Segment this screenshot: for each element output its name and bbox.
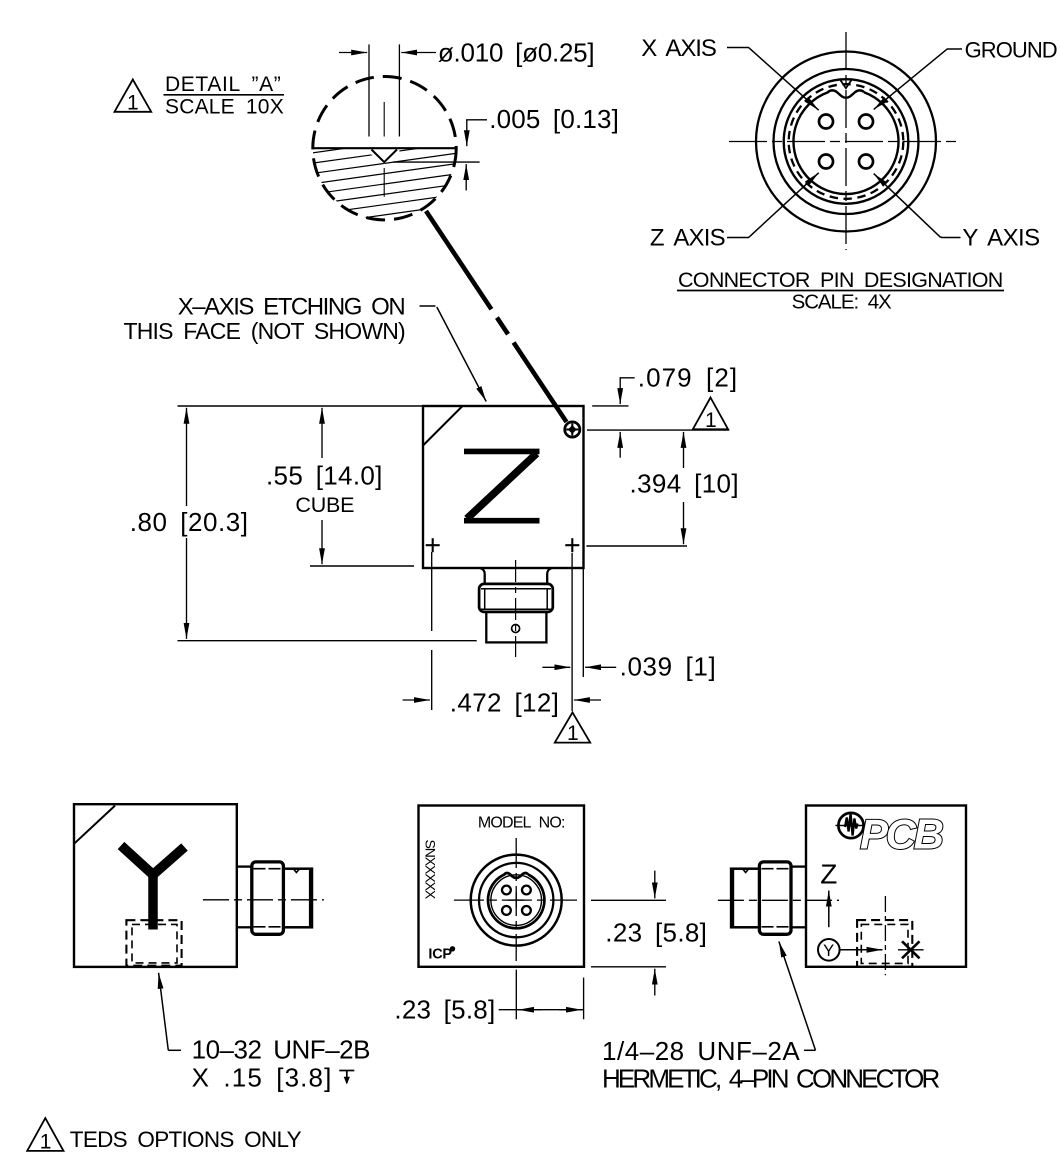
svg-text:1/4–28 UNF–2A: 1/4–28 UNF–2A	[602, 1036, 800, 1066]
connector third circle	[784, 79, 909, 204]
dimension .005	[393, 104, 619, 190]
top extension line (cube top to left)	[178, 405, 424, 407]
svg-text:1: 1	[705, 409, 717, 432]
flag triangle 1 (bottom)	[555, 712, 590, 745]
svg-text:PCB: PCB	[860, 811, 944, 858]
face pin 4	[522, 906, 531, 915]
label GROUND + leader	[874, 38, 1058, 110]
svg-text:X .15 [3.8]: X .15 [3.8]	[192, 1063, 332, 1093]
connector centerline	[203, 899, 324, 901]
svg-text:CUBE: CUBE	[295, 493, 354, 517]
label Y AXIS + leader	[874, 174, 1041, 252]
connector vertical centerline	[845, 32, 847, 250]
svg-text:1: 1	[567, 722, 579, 745]
dimension .394 [10]	[630, 432, 739, 544]
face connector second circle	[479, 863, 553, 937]
svg-text:GROUND: GROUND	[965, 38, 1058, 63]
callout X-AXIS ETCHING	[124, 294, 487, 402]
pin Z (lower-left)	[819, 155, 833, 169]
flag triangle 1 (TEDS)	[27, 1118, 63, 1153]
connector keyway circle with top notch	[794, 90, 899, 194]
svg-text:.55 [14.0]: .55 [14.0]	[266, 461, 383, 491]
svg-text:Y: Y	[823, 942, 834, 960]
hidden hole outer dashed square	[857, 920, 912, 967]
extension line at screw level	[587, 429, 729, 431]
dimension .079 [2]	[620, 363, 737, 458]
dimension .23 [5.8] (vertical)	[605, 871, 707, 996]
stud centerline	[515, 560, 517, 657]
Y etching	[121, 846, 185, 930]
face pin 1	[502, 886, 511, 895]
+ mark lower-left of cube face	[426, 538, 440, 552]
left connector collar	[759, 862, 791, 934]
connector centerline	[718, 899, 839, 901]
PCB logo mark	[836, 811, 945, 858]
extension line below left + mark	[431, 552, 433, 631]
X-axis into-page symbol	[898, 941, 924, 958]
pin Y (lower-right)	[859, 155, 873, 169]
svg-text:ø.010 [ø0.25]: ø.010 [ø0.25]	[438, 38, 595, 68]
svg-text:ICP: ICP	[428, 946, 452, 962]
white V-groove cutout	[369, 148, 399, 163]
extension line below right + mark	[571, 553, 573, 711]
Z axis arrow	[828, 891, 830, 928]
svg-text:SCALE: 4X: SCALE: 4X	[792, 291, 892, 314]
connector horizontal centerline	[729, 141, 961, 143]
side connector collar	[252, 862, 284, 934]
face connector inner thin circle	[491, 875, 542, 926]
right .23 dim: extension at bottom level	[591, 966, 666, 968]
svg-text:.80 [20.3]: .80 [20.3]	[130, 507, 249, 537]
Y-to-X arrow	[841, 949, 883, 951]
side connector neck	[237, 867, 252, 928]
svg-text:THIS FACE (NOT SHOWN): THIS FACE (NOT SHOWN)	[124, 318, 407, 344]
title CONNECTOR PIN DESIGNATION	[677, 268, 1004, 314]
hidden mounting hole (inner dashed square)	[132, 924, 177, 963]
svg-text:10–32 UNF–2B: 10–32 UNF–2B	[192, 1035, 371, 1065]
svg-text:MODEL NO:: MODEL NO:	[478, 815, 566, 832]
stud lower pilot	[486, 612, 546, 643]
svg-text:Z AXIS: Z AXIS	[650, 225, 726, 252]
extension line below cube right edge	[582, 568, 584, 677]
dimension dia .010	[339, 38, 595, 68]
face horizontal centerline	[454, 899, 577, 901]
cube body (Y face)	[74, 804, 237, 967]
connector dashed circle	[789, 84, 904, 199]
cube body (connector face)	[419, 806, 585, 967]
stud tip hole	[512, 625, 520, 633]
TEDS screw (phillips) top-right of cube face	[565, 422, 580, 437]
Z etching on cube face	[464, 451, 540, 520]
right extension line at cube-top level	[592, 405, 628, 407]
hole vertical centerline	[884, 896, 886, 975]
+ mark lower-right of cube face	[565, 538, 579, 552]
flag triangle 1 (detail A)	[115, 80, 152, 115]
svg-text:.005 [0.13]: .005 [0.13]	[489, 104, 619, 134]
connector second circle	[774, 69, 919, 214]
groove centerline	[383, 102, 385, 137]
dimension .039 [1]	[542, 652, 716, 682]
svg-text:Y AXIS: Y AXIS	[962, 225, 1040, 252]
svg-text:SCALE 10X: SCALE 10X	[165, 96, 284, 119]
flag triangle 1 (right)	[693, 398, 728, 433]
face center cross	[508, 892, 524, 908]
bottom .23 dim extension lines	[515, 970, 517, 1020]
note 10-32 UNF-2B	[192, 1035, 371, 1093]
pin GROUND (upper-right)	[859, 115, 873, 129]
cube chamfer corner line	[423, 406, 463, 446]
label DETAIL "A"	[164, 73, 285, 119]
keyway top V notch	[841, 80, 852, 88]
mounting stud neck	[481, 568, 552, 584]
groove edge extension lines	[368, 44, 370, 136]
label ICP with registered dot	[428, 946, 455, 962]
hatching lower half	[300, 131, 470, 268]
label Z AXIS + leader	[650, 173, 819, 252]
stud threaded collar	[479, 584, 553, 612]
Y axis circle symbol	[818, 939, 840, 961]
svg-text:CONNECTOR PIN DESIGNATION: CONNECTOR PIN DESIGNATION	[678, 268, 1004, 292]
.55 bottom extension line	[310, 565, 414, 567]
body keyway notch	[743, 869, 749, 873]
dimension .80 [20.3]	[130, 408, 249, 639]
svg-text:.23 [5.8]: .23 [5.8]	[394, 995, 495, 1025]
dimension .472 [12]	[403, 688, 601, 718]
svg-text:DETAIL ”A”: DETAIL ”A”	[165, 73, 281, 96]
svg-text:.23 [5.8]: .23 [5.8]	[605, 918, 707, 948]
side connector body	[283, 869, 312, 928]
svg-text:.039 [1]: .039 [1]	[620, 652, 716, 682]
connector outer circle	[756, 52, 936, 232]
face connector outer circle	[471, 855, 562, 946]
hidden hole inner dashed square	[861, 924, 908, 963]
svg-text:1: 1	[40, 1131, 52, 1154]
body keyway notch	[293, 869, 299, 873]
leader to 1/4-28 note	[779, 942, 816, 1051]
svg-text:X AXIS: X AXIS	[641, 35, 717, 62]
thick dash-dot leader from detail circle to screw	[426, 211, 567, 422]
left connector neck	[791, 867, 806, 928]
left connector body	[731, 869, 760, 928]
label X AXIS + leader	[641, 35, 819, 110]
cube body (right side)	[806, 806, 966, 967]
extension line at + level	[586, 545, 687, 547]
detail circle (dashed boundary)	[313, 77, 456, 220]
face pin 2	[522, 886, 531, 895]
right .23 dim: extension at centerline level	[591, 899, 666, 901]
face pin 3	[502, 906, 511, 915]
svg-text:.394 [10]: .394 [10]	[630, 469, 739, 499]
pin X (upper-left)	[819, 115, 833, 129]
svg-text:.472 [12]: .472 [12]	[450, 688, 559, 718]
leader to 10-32 thread note	[159, 973, 181, 1051]
face vertical centerline	[515, 838, 517, 961]
dimension .55 [14.0] CUBE	[266, 408, 383, 564]
V groove	[372, 150, 398, 163]
svg-text:X–AXIS ETCHING ON: X–AXIS ETCHING ON	[178, 294, 406, 321]
svg-text:Z: Z	[820, 858, 837, 889]
surface line	[313, 147, 456, 149]
svg-text:TEDS OPTIONS ONLY: TEDS OPTIONS ONLY	[70, 1127, 302, 1152]
note 1/4-28 UNF-2A	[602, 1036, 941, 1093]
depth symbol	[339, 1071, 354, 1085]
face connector keyway circle	[488, 873, 544, 928]
svg-text:1: 1	[127, 92, 139, 115]
svg-text:SNXXXXX: SNXXXXX	[422, 840, 438, 900]
bottom extension line (.80)	[178, 640, 477, 642]
svg-text:.079 [2]: .079 [2]	[638, 363, 738, 393]
svg-text:HERMETIC, 4–PIN CONNECTOR: HERMETIC, 4–PIN CONNECTOR	[602, 1064, 941, 1094]
cube body	[423, 406, 584, 568]
hidden mounting hole (outer dashed square)	[126, 920, 181, 966]
chamfer corner line	[74, 806, 115, 844]
dimension .23 [5.8] (horizontal)	[394, 995, 583, 1025]
